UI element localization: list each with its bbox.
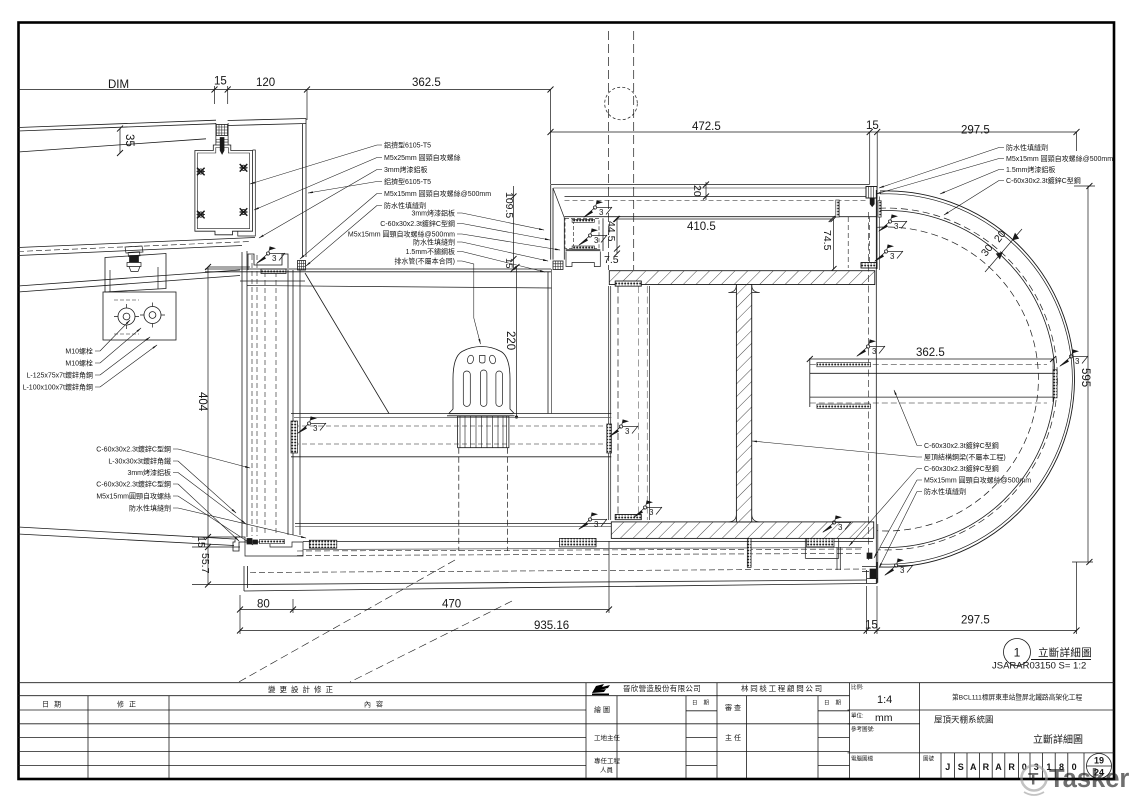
svg-text:3mm烤漆鋁板: 3mm烤漆鋁板 — [411, 209, 455, 218]
watermark — [1022, 765, 1130, 795]
beam bottom dashed — [810, 402, 1047, 404]
mullion sill assembly — [233, 537, 303, 556]
svg-text:1:4: 1:4 — [877, 694, 892, 706]
svg-text:J: J — [945, 762, 950, 772]
svg-text:74.5: 74.5 — [821, 230, 833, 251]
svg-text:220: 220 — [504, 331, 516, 350]
cap bolt top-left — [197, 168, 205, 176]
svg-text:15: 15 — [866, 120, 879, 132]
row line 410.5 level — [565, 216, 878, 218]
svg-text:297.5: 297.5 — [961, 125, 990, 137]
dim 44.5 / 7.5 — [616, 219, 618, 254]
wall base sealant block — [553, 261, 563, 270]
svg-text:M5x15mm圓頸自攻螺絲: M5x15mm圓頸自攻螺絲 — [96, 492, 171, 501]
beam top dotted strip — [817, 363, 871, 367]
bracket slot lines — [114, 300, 139, 334]
beam right end cap — [1052, 366, 1054, 402]
svg-text:人員: 人員 — [600, 766, 614, 774]
svg-text:362.5: 362.5 — [916, 347, 945, 359]
svg-text:M10螺栓: M10螺栓 — [65, 347, 93, 356]
wall base dotted strip — [861, 263, 877, 269]
svg-text:主任: 主任 — [725, 733, 743, 742]
flag arc second — [874, 245, 903, 263]
band A right end plate — [607, 424, 612, 453]
svg-text:19: 19 — [1094, 756, 1104, 766]
flag upper box left lower — [578, 229, 607, 247]
column bottom splice strip — [615, 515, 641, 520]
cap outer casing right — [238, 150, 256, 236]
svg-text:晉欣營造股份有限公司: 晉欣營造股份有限公司 — [623, 683, 701, 693]
dim 362.5 right beam — [810, 358, 1053, 360]
revision rows — [18, 709, 586, 711]
flag on gutter edge — [256, 247, 285, 265]
detail bubble — [992, 639, 1092, 672]
arc attach dotted strip — [878, 201, 881, 218]
right section — [919, 683, 921, 778]
hidden C-channel dashed — [847, 217, 849, 268]
band A left end plate — [291, 421, 298, 453]
mullion verticals solid — [241, 252, 243, 537]
building face line — [875, 190, 877, 583]
hidden arc dashed inner — [877, 227, 1038, 531]
cap neck channel — [216, 123, 228, 145]
svg-text:修正: 修正 — [117, 700, 141, 709]
svg-text:C-60x30x2.3t鍍鋅C型鋼: C-60x30x2.3t鍍鋅C型鋼 — [380, 219, 455, 228]
existing beam sloped band — [18, 238, 255, 248]
svg-text:109.5: 109.5 — [503, 192, 515, 218]
svg-text:鋁擠型6105-T5: 鋁擠型6105-T5 — [384, 141, 431, 150]
soffit dashed channels — [297, 549, 862, 551]
svg-text:C-60x30x2.3t鍍鋅C型鋼: C-60x30x2.3t鍍鋅C型鋼 — [96, 445, 171, 454]
pipe column dashed lines — [608, 31, 610, 270]
svg-text:立斷詳細圖: 立斷詳細圖 — [1033, 733, 1083, 746]
left wall — [551, 185, 565, 260]
svg-text:M5x15mm 圓頸自攻螺絲@500mm: M5x15mm 圓頸自攻螺絲@500mm — [384, 189, 491, 198]
svg-text:日期: 日期 — [692, 700, 715, 707]
mullion head horizontal — [205, 268, 551, 270]
flag band B right — [822, 516, 851, 534]
right wall assembly — [836, 187, 881, 271]
hidden arc dashed outer — [879, 208, 1057, 550]
svg-text:C-60x30x2.3t鍍鋅C型鋼: C-60x30x2.3t鍍鋅C型鋼 — [924, 464, 999, 473]
svg-text:排水管(不屬本合同): 排水管(不屬本合同) — [394, 257, 455, 266]
svg-text:470: 470 — [442, 599, 461, 611]
dim line 472.5 / 15 / 297.5 — [551, 131, 1077, 133]
svg-text:935.16: 935.16 — [534, 620, 569, 632]
anchor bracket upper — [103, 254, 176, 341]
roof cap lines to fascia — [228, 119, 306, 121]
svg-text:防水性填縫劑: 防水性填縫劑 — [924, 487, 966, 496]
flag band B left — [578, 513, 607, 531]
svg-text:15: 15 — [214, 76, 227, 88]
beam bottom dotted strip — [817, 404, 871, 408]
svg-text:屋頂天棚系統圖: 屋頂天棚系統圖 — [934, 715, 994, 725]
svg-text:L-100x100x7t鍍鋅角鋼: L-100x100x7t鍍鋅角鋼 — [23, 383, 93, 392]
svg-text:L-30x30x3t鍍鋅角鐵: L-30x30x3t鍍鋅角鐵 — [108, 457, 171, 466]
svg-text:M5x15mm 圓頸自攻螺絲@500mm: M5x15mm 圓頸自攻螺絲@500mm — [924, 476, 1031, 485]
svg-text:44.5: 44.5 — [605, 221, 617, 242]
svg-text:mm: mm — [875, 712, 893, 724]
svg-text:工地主任: 工地主任 — [594, 733, 621, 742]
flag band A right — [609, 420, 638, 438]
svg-text:297.5: 297.5 — [961, 615, 990, 627]
svg-text:參考圖號:: 參考圖號: — [851, 725, 875, 733]
gutter back wall line — [247, 286, 552, 289]
soffit splice strips — [309, 540, 337, 548]
drawing number cells — [940, 753, 942, 778]
svg-text:防水性填縫劑: 防水性填縫劑 — [129, 504, 171, 513]
svg-text:日期: 日期 — [42, 701, 66, 709]
svg-text:410.5: 410.5 — [687, 221, 716, 233]
flag upper box left top — [583, 201, 612, 219]
flag right beam left — [856, 340, 885, 358]
dim 80 470 bottom — [240, 609, 609, 611]
radial dim line 30 20 — [985, 229, 1022, 272]
svg-text:圖號: 圖號 — [923, 755, 935, 763]
revision header line — [18, 695, 850, 697]
hatched connector top right — [866, 187, 877, 199]
svg-text:1.5mm烤漆鋁板: 1.5mm烤漆鋁板 — [1006, 165, 1055, 174]
mullion verticals dashed — [252, 255, 276, 536]
fascia verticals — [302, 124, 304, 257]
top hatch band — [609, 271, 875, 285]
svg-text:變更設計修正: 變更設計修正 — [268, 684, 337, 694]
hanger below column — [747, 538, 751, 567]
svg-text:T: T — [1028, 770, 1039, 789]
column top splice strip — [615, 281, 641, 286]
svg-text:M10螺栓: M10螺栓 — [65, 359, 93, 368]
svg-text:審查: 審查 — [725, 703, 743, 712]
dim 74.5 — [833, 219, 835, 269]
cap bolt bottom-left — [197, 211, 205, 219]
bottom-left soffit sloped lines — [18, 527, 234, 539]
dim line top DIM row — [18, 89, 551, 91]
bottom hatch band — [611, 522, 873, 539]
svg-text:15: 15 — [503, 258, 514, 269]
lower sloped panel pair — [18, 270, 240, 286]
svg-text:R: R — [983, 762, 990, 772]
svg-text:A: A — [970, 762, 977, 772]
flag band B col — [633, 501, 662, 519]
corner sealant dark bits — [867, 553, 872, 559]
svg-text:專任工程: 專任工程 — [594, 756, 621, 765]
svg-text:C-60x30x2.3t鍍鋅C型鋼: C-60x30x2.3t鍍鋅C型鋼 — [1006, 176, 1081, 185]
drawing number letters — [945, 756, 1104, 778]
flag right beam cap — [1059, 350, 1088, 368]
drain grate — [458, 416, 509, 448]
svg-text:362.5: 362.5 — [412, 77, 441, 89]
mullion cap outer box — [195, 145, 253, 235]
svg-text:單位:: 單位: — [851, 712, 864, 720]
hidden face dashed — [868, 212, 870, 560]
cap bolt bottom-right — [239, 208, 247, 216]
svg-text:404: 404 — [196, 392, 208, 412]
bolt through pad — [216, 140, 228, 143]
dim 35 top-left — [119, 129, 121, 153]
beam left end — [809, 358, 811, 407]
company logo — [592, 684, 610, 695]
svg-text:屋頂結構鋼梁(不屬本工程): 屋頂結構鋼梁(不屬本工程) — [924, 453, 1006, 462]
svg-text:3mm烤漆鋁板: 3mm烤漆鋁板 — [384, 165, 428, 174]
svg-text:472.5: 472.5 — [692, 121, 721, 133]
dim 595 right vertical — [1087, 186, 1089, 562]
svg-text:Tasker: Tasker — [1049, 765, 1129, 793]
revision table verticals — [87, 696, 89, 778]
date sub-lines — [686, 710, 717, 712]
bracket bolt left — [114, 304, 139, 329]
svg-text:M5x15mm 圓頸自攻螺絲@500mm: M5x15mm 圓頸自攻螺絲@500mm — [348, 230, 455, 239]
svg-text:1: 1 — [1014, 646, 1021, 660]
roof sloped top panel lines — [18, 120, 216, 127]
fascia right end cap — [867, 562, 877, 584]
svg-text:120: 120 — [256, 77, 275, 89]
left sub box — [565, 218, 599, 248]
svg-text:林同棪工程顧問公司: 林同棪工程顧問公司 — [741, 683, 824, 693]
wall dotted fastener strip — [836, 200, 839, 217]
soffit mid solid line — [303, 548, 862, 550]
hanger right box — [805, 538, 838, 558]
dim 109.5 / 15 — [513, 186, 515, 269]
bottom fascia panel — [244, 580, 867, 585]
svg-text:JSARAR03150 S= 1:2: JSARAR03150 S= 1:2 — [992, 661, 1086, 672]
flag band A left — [297, 417, 326, 435]
svg-text:1.5mm不鏽鋼板: 1.5mm不鏽鋼板 — [406, 247, 455, 256]
svg-text:595: 595 — [1079, 368, 1091, 387]
dim 935.16 / 15 / 297.5 bottom — [240, 630, 1077, 632]
svg-text:R: R — [1008, 762, 1015, 772]
drain dome base flange — [447, 414, 515, 416]
svg-text:55.7: 55.7 — [199, 553, 211, 574]
T-bolt on beam — [125, 246, 143, 272]
svg-text:鋁擠型6105-T5: 鋁擠型6105-T5 — [384, 177, 431, 186]
svg-text:第BCL111標屏東車站暨屏北鐵路高架化工程: 第BCL111標屏東車站暨屏北鐵路高架化工程 — [952, 693, 1082, 702]
outer skin arc pair — [880, 191, 1075, 567]
svg-text:20: 20 — [691, 185, 703, 197]
svg-text:日期: 日期 — [824, 700, 847, 707]
sheet number circle — [1087, 754, 1112, 779]
dome slots — [463, 371, 470, 406]
flag corner — [884, 559, 913, 577]
column dashed verticals — [608, 286, 610, 520]
svg-text:M5x15mm 圓頸自攻螺絲@500mm: M5x15mm 圓頸自攻螺絲@500mm — [1006, 154, 1113, 163]
svg-text:DIM: DIM — [108, 79, 129, 91]
dome top holes — [467, 355, 475, 365]
dim 410.5 — [616, 218, 832, 220]
svg-text:比例:: 比例: — [851, 683, 864, 691]
fascia left end cap — [244, 566, 248, 591]
svg-text:電腦圖檔: 電腦圖檔 — [851, 755, 874, 763]
svg-text:S: S — [958, 762, 964, 772]
svg-text:3mm烤漆鋁板: 3mm烤漆鋁板 — [127, 468, 171, 477]
svg-text:內容: 內容 — [364, 700, 388, 709]
svg-text:A: A — [995, 762, 1002, 772]
bracket lower plate — [103, 292, 176, 340]
dim 20 top band — [705, 182, 707, 200]
drain dome bell — [449, 347, 514, 414]
svg-text:15: 15 — [865, 620, 878, 632]
roof lower chord sloped line — [18, 139, 206, 152]
mullion cap inner profile — [197, 148, 249, 229]
svg-text:80: 80 — [257, 599, 270, 611]
svg-text:立斷詳細圖: 立斷詳細圖 — [1038, 646, 1092, 659]
dim 404/15/55.7 left vertical — [207, 267, 209, 585]
EPDM pad hatched — [216, 125, 227, 136]
inner frame arc — [880, 210, 1055, 547]
svg-text:繪圖: 繪圖 — [594, 705, 612, 714]
svg-text:防水性填縫劑: 防水性填縫劑 — [413, 238, 455, 247]
vertical hatch column — [728, 285, 759, 522]
dim 220 gutter — [516, 267, 518, 417]
bracket bolt right — [140, 303, 165, 328]
flag arc top — [878, 215, 907, 233]
soffit lower dashed — [250, 569, 866, 573]
gutter right wall — [547, 272, 549, 414]
drain pipe dashed — [458, 448, 460, 551]
svg-text:C-60x30x2.3t鍍鋅C型鋼: C-60x30x2.3t鍍鋅C型鋼 — [924, 441, 999, 450]
pipe centerline circle — [605, 87, 638, 120]
gutter slope diagonal — [305, 273, 389, 414]
svg-text:7.5: 7.5 — [604, 254, 619, 266]
beam solid chords — [810, 372, 1053, 374]
top band dashed panel — [565, 200, 869, 202]
top band outer — [551, 184, 870, 186]
gutter edge channel on mullion head — [248, 254, 306, 274]
svg-text:M5x25mm 圓頸自攻螺絲: M5x25mm 圓頸自攻螺絲 — [384, 153, 461, 162]
company section verticals — [585, 683, 587, 778]
svg-text:防水性填縫劑: 防水性填縫劑 — [384, 201, 426, 210]
beam top dashed — [810, 364, 1047, 366]
svg-text:C-60x30x2.3t鍍鋅C型鋼: C-60x30x2.3t鍍鋅C型鋼 — [96, 480, 171, 489]
svg-text:防水性填縫劑: 防水性填縫劑 — [1006, 143, 1048, 152]
cap bolt top-right — [239, 164, 247, 172]
title block top line — [18, 682, 1114, 684]
svg-text:L-125x75x7t鍍鋅角鋼: L-125x75x7t鍍鋅角鋼 — [26, 371, 93, 380]
